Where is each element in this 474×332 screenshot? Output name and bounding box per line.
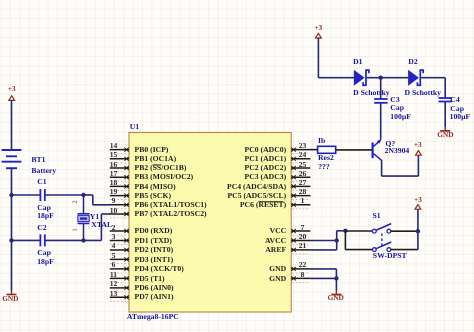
wire GND down [335,278,337,291]
pin 20 AVCC (right) [291,239,310,245]
label C4 [450,96,459,104]
wire resistor to transistor base [336,149,372,151]
diode D1 D Schottky [354,70,369,86]
wire D1 cathode to D2 anode [367,77,408,79]
label Battery [31,167,56,175]
wire to switch bottom-left terminal [345,249,372,251]
label pin number 4 left [112,242,116,250]
crystal Y1 [78,195,90,240]
label Ib [318,137,325,145]
label pin name 10 left [135,210,207,218]
wire C2 row to ground [11,240,13,291]
label C1 [37,178,46,186]
battery BT1 [2,150,22,168]
label pin number 28 right [299,188,307,196]
wire C2 left lead [12,239,41,241]
wire +3 vertical at switch [417,209,419,250]
label pin number 8 right [301,271,305,279]
label ??? [318,163,330,171]
label pin number 1 right [301,197,305,205]
label 2N3904 [385,147,410,155]
node: GND tee [334,276,338,280]
label pin name 23 right [245,146,287,154]
label pin name 24 right [245,155,287,163]
wire pin AVCC to switch [310,240,337,242]
node: switch pole tee [343,229,347,233]
wire switch pole vertical [344,231,346,250]
wire +3 to battery [11,100,13,150]
label C3 [390,96,399,104]
power +3 top-right [316,33,322,38]
label pin name 2 left [135,227,173,235]
label C4 100uF [450,113,471,121]
label C3 100uF [390,113,411,121]
node: battery/C1 junction [9,193,13,197]
wire C3 to transistor emitter [380,103,382,140]
pin 22 GND (right) [291,267,310,273]
label pin name 4 left [135,246,174,254]
label pin number 2 left [112,224,116,232]
label pin name 22 right [269,265,286,273]
ground (battery negative) [7,291,17,295]
pin 6 PD4 (XCK/T0) (left) [110,267,129,273]
label pin number 17 left [110,170,118,178]
pin 2 PD0 (RXD) (left) [110,229,129,235]
wire pin PC0 to resistor [310,149,317,151]
label pin name 18 left [135,183,176,191]
label XTAL [91,221,112,229]
wire C1 right lead to crystal node [45,194,84,196]
label C2 [37,224,46,232]
label pin name 5 left [135,256,174,264]
label pin number 19 left [110,188,118,196]
pin 23 PC0 (ADC0) (right) [291,148,310,154]
wire to switch poles [337,230,346,232]
label C1 18pF [37,212,54,220]
wire +3 down to diode rail [318,38,354,78]
label +3 top-right [314,24,322,31]
label C1 Cap [37,204,51,212]
wire C1 row to C2 row [11,195,13,240]
label pin number 9 left [112,197,116,205]
pin 9 PB6 (XTAL1/TOSC1) (left) [110,203,129,209]
capacitor C2 [40,234,44,246]
pin 1 PC6 (RESET) (right) [291,203,310,209]
pin 3 PD1 (TXD) (left) [110,238,129,244]
label pin name 7 right [270,227,287,235]
diode D2 D Schottky [408,70,423,86]
label pin name 19 left [135,192,172,200]
label pin number 14 left [110,142,118,150]
pin 17 PB3 (MOSI/OC2) (left) [110,175,129,181]
label SW-DPST [373,252,407,260]
label pin name 3 left [135,237,172,245]
label pin name 25 right [245,164,287,172]
label pin number 22 right [299,261,307,269]
pin 19 PB5 (SCK) (left) [110,194,129,200]
label pin number 11 left [110,271,117,279]
node: D1/D2/C3 junction [379,76,383,80]
label Res2 [318,154,334,162]
label GND right [437,131,453,138]
op-amp U1 ATmega8-16PC body [129,133,291,313]
pin 11 PD5 (T1) (left) [110,276,129,282]
label pin number 5 left [112,252,116,260]
label pin number 16 left [110,161,118,169]
node: crystal top [81,193,85,197]
label GND middle [328,294,344,301]
label crystal pin 2 [72,201,78,204]
label +3 top-left [8,85,16,92]
wire switch feed vertical [336,231,338,250]
label pin number 23 right [299,142,307,150]
pin 4 PD2 (INT0) (left) [110,248,129,254]
label D2 D Schottky [405,89,442,97]
power +3 top-left [9,96,15,101]
wire crystal node to pin PB7 [84,214,111,240]
label pin name 14 left [135,146,169,154]
pin 15 PB1 (OC1A) (left) [110,157,129,163]
wire switch top-right to +3 [391,230,418,232]
label pin number 26 right [299,170,307,178]
pin 16 PB2 (SS/OC1B) (left) [110,166,129,172]
label pin name 12 left [135,284,174,292]
label pin name 9 left [135,201,207,209]
label pin name 26 right [245,173,287,181]
label pin number 10 left [110,207,118,215]
node: crystal bottom [81,238,85,242]
wire C2 right lead to crystal node [45,239,84,241]
wire crystal node to pin PB6 [84,195,111,205]
label +3 above switch [414,196,422,203]
pin 27 PC4 (ADC4/SDA) (right) [291,184,310,190]
label GND left [2,295,18,302]
label BT1 [31,156,45,164]
label S1 [373,212,381,220]
overbar on RESET of PC6 [258,201,283,203]
label pin name 16 left [135,164,187,172]
node: switch +3 tee [416,229,420,233]
label pin number 13 left [110,290,118,298]
wire switch bottom-right to +3 [391,249,418,251]
label pin number 15 left [110,151,118,159]
wire C1 left lead [12,194,41,196]
pin 8 GND (right) [291,276,310,282]
label pin number 27 right [299,179,307,187]
pin 10 PB7 (XTAL2/TOSC2) (left) [110,212,129,218]
wire to switch top-left terminal [345,230,372,232]
label pin number 25 right [299,161,307,169]
ground (chip GND pins) [331,291,341,295]
label pin number 3 left [112,233,116,241]
label pin number 6 left [112,261,116,269]
label +3 at collector [414,141,422,148]
label pin number 20 right [299,233,307,241]
label crystal pin 1 [72,229,78,232]
pin 26 PC3 (ADC3) (right) [291,175,310,181]
pin 7 VCC (right) [291,229,310,235]
label pin number 12 left [110,280,118,288]
wire battery to C1 row [11,168,13,195]
pin 28 PC5 (ADC5/SCL) (right) [291,194,310,200]
label pin name 15 left [135,155,177,163]
node: battery/C2 junction [9,238,13,242]
pin 5 PD3 (INT1) (left) [110,257,129,263]
capacitor C1 [40,189,44,201]
label pin name 11 left [135,275,165,283]
label C2 18pF [37,258,54,266]
pin 14 PB0 (ICP) (left) [110,148,129,154]
wire pin AREF to switch [310,249,337,251]
label pin name 17 left [135,173,194,181]
label U1 [130,123,139,131]
wire transistor collector to +3 [382,155,419,176]
label pin name 1 right [240,201,286,209]
node: AVCC tee [335,238,339,242]
capacitor C3 [374,99,387,103]
label pin name 20 right [265,237,286,245]
label ATmega8-16PC [127,313,179,321]
capacitor C4 [439,98,452,102]
wire pin 22 GND [310,269,336,279]
wire D2 cathode to C4 [421,78,445,98]
label C4 Cap [450,105,464,113]
label Y1 [90,213,99,221]
pin 25 PC2 (ADC2) (right) [291,166,310,172]
label pin name 28 right [227,192,286,200]
pin 21 AREF (right) [291,248,310,254]
label D2 [408,58,417,66]
label pin number 7 right [301,224,305,232]
overbar on SS of PB2 [153,164,162,166]
label D1 [353,58,362,66]
power +3 above switch [415,205,421,210]
pin 13 PD7 (AIN1) (left) [110,295,129,301]
ground below C4 [440,127,450,131]
label pin number 18 left [110,179,118,187]
transistor Q? 2N3904 [373,139,382,160]
label pin number 21 right [299,242,307,250]
resistor Res2 (Ib) [318,146,336,153]
pin 12 PD6 (AIN0) (left) [110,286,129,292]
label pin name 21 right [265,246,286,254]
label Q? [385,140,395,148]
label pin name 13 left [135,293,174,301]
switch S1 SW-DPST [372,224,391,252]
label pin number 24 right [299,151,307,159]
label D1 D Schottky [353,89,390,97]
label C2 Cap [37,249,51,257]
label pin name 8 right [269,275,286,283]
pin 24 PC1 (ADC1) (right) [291,157,310,163]
label pin name 27 right [227,183,286,191]
label C3 Cap [390,104,404,112]
label pin name 6 left [135,265,184,273]
wire C4 to ground [444,102,446,128]
wire pin 8 GND [310,277,336,279]
wire junction down to C3 [380,78,382,99]
pin 18 PB4 (MISO) (left) [110,184,129,190]
power +3 at collector [416,151,422,156]
